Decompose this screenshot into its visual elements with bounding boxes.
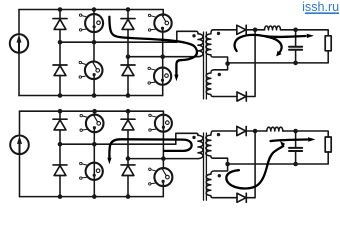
wire leg3 bbox=[127, 10, 129, 96]
current path arrow output loop bottom ckt bbox=[226, 146, 283, 188]
wire left side bottom ckt bbox=[19, 111, 21, 196]
diode VD8 bbox=[53, 165, 67, 176]
diode VD1 bbox=[53, 19, 67, 30]
polarity dot primary T1 bbox=[192, 34, 195, 37]
transformer T1 lower secondary bbox=[206, 64, 227, 97]
transformer T1 core bbox=[204, 32, 207, 99]
wire L1 to load corner bbox=[281, 30, 329, 36]
capacitor C1 bbox=[289, 30, 302, 63]
diode VD5 bbox=[237, 25, 246, 34]
wire load bottom to return rail bbox=[228, 51, 329, 63]
node capacitor bottom bbox=[293, 61, 298, 66]
diode VD12 bbox=[237, 193, 246, 202]
node top rail leg1 bbox=[58, 7, 63, 12]
switch tube V7 (on) bbox=[149, 114, 172, 131]
polarity dot upper secondary T2 bbox=[217, 133, 220, 136]
current source I1 bbox=[10, 34, 28, 52]
switch tube V2 (off) bbox=[79, 61, 102, 79]
diode VD3 bbox=[121, 19, 135, 30]
resistor R1 load bbox=[325, 36, 331, 51]
node midrail-right leg4 bbox=[160, 54, 165, 59]
current path arrow to load bottom ckt bbox=[271, 140, 308, 142]
wire VD12 riser to output junction b bbox=[246, 131, 255, 198]
current source I2 bbox=[10, 136, 29, 155]
node capacitor bottom b bbox=[293, 162, 298, 167]
wire VD11 to inductor L2 bbox=[246, 130, 267, 132]
switch tube V4 (on) bbox=[148, 67, 171, 85]
current path arrow capacitor top ckt bbox=[267, 37, 282, 54]
wire leg1 b bbox=[59, 111, 61, 196]
node bottom rail leg2 bbox=[92, 93, 97, 98]
wire leg4 bbox=[162, 10, 165, 96]
node bottom rail leg1 b bbox=[58, 194, 63, 199]
transformer T2 primary winding bbox=[198, 135, 203, 158]
wire bottom rail bottom ckt bbox=[20, 196, 164, 198]
inductor L1 bbox=[265, 26, 281, 30]
diode VD11 bbox=[237, 126, 246, 135]
wire leg2 bbox=[93, 10, 95, 96]
node midrail leg1 b bbox=[58, 142, 63, 147]
wire lower secondary to diode VD6 bbox=[213, 96, 237, 98]
wire leg4 b bbox=[162, 111, 164, 196]
node top rail leg3 bbox=[126, 7, 131, 12]
switch tube V3 (off) bbox=[148, 14, 171, 32]
diode VD6 bbox=[237, 92, 246, 101]
wire secondary top to diode VD11 bbox=[213, 130, 237, 132]
issh.ru link bbox=[302, 0, 339, 14]
node top rail leg3 b bbox=[126, 109, 131, 114]
wire secondary top to diode VD5 bbox=[213, 29, 237, 31]
wire left side top ckt bbox=[18, 10, 20, 96]
wire leg3 b bbox=[127, 111, 129, 196]
node bottom rail leg3 b bbox=[126, 194, 131, 199]
node midrail leg1 bbox=[58, 40, 63, 45]
current path arrow bridge bottom ckt bbox=[109, 139, 191, 158]
node bottom rail leg3 bbox=[126, 93, 131, 98]
polarity dot upper secondary T1 bbox=[217, 32, 220, 35]
node bottom rail leg1 bbox=[58, 93, 63, 98]
switch tube V1 (on) bbox=[79, 14, 103, 32]
node top rail leg2 b bbox=[92, 109, 97, 114]
node midrail-right leg3 bbox=[126, 54, 131, 59]
wire L2 to load corner b bbox=[283, 131, 328, 137]
node midrail-right leg3 b bbox=[126, 156, 131, 161]
switch tube V5 (off) bbox=[80, 114, 103, 132]
wire bottom rail top ckt bbox=[19, 95, 163, 97]
transformer T2 lower secondary bbox=[206, 164, 227, 198]
node capacitor top bbox=[293, 28, 298, 33]
node top rail leg2 bbox=[92, 7, 97, 12]
switch tube V6 (on) bbox=[80, 162, 103, 180]
node center tap T2 bbox=[225, 162, 230, 167]
wire leg1 bbox=[59, 10, 61, 96]
inductor L2 bbox=[267, 127, 283, 131]
diode VD7 bbox=[53, 119, 67, 130]
diode VD2 bbox=[53, 65, 67, 76]
wire lower secondary to diode VD12 bbox=[213, 197, 237, 199]
wire midrail-left to primary top b bbox=[60, 133, 198, 144]
wire top rail bottom ckt bbox=[20, 110, 164, 112]
capacitor C2 bbox=[289, 131, 302, 164]
node midrail-left leg2 bbox=[92, 40, 97, 45]
node rectifier output junction b bbox=[253, 129, 258, 134]
transformer T1 primary winding bbox=[198, 34, 203, 57]
polarity dot primary T2 bbox=[192, 136, 195, 139]
transformer T1 upper secondary bbox=[206, 30, 228, 64]
wire top rail top ckt bbox=[19, 9, 163, 11]
node top rail leg1 b bbox=[58, 109, 63, 114]
transformer T2 core bbox=[204, 133, 207, 200]
diode VD10 bbox=[121, 165, 135, 176]
wire midrail-right to primary bottom bbox=[128, 56, 198, 58]
node midrail-right leg4 b bbox=[161, 156, 166, 161]
current path arrow bridge top ckt bbox=[109, 17, 197, 76]
wire leg2 b bbox=[93, 111, 95, 196]
transformer T2 upper secondary bbox=[206, 131, 228, 164]
polarity dot lower secondary T2 bbox=[218, 174, 221, 177]
wire load bottom to return rail b bbox=[228, 152, 329, 164]
node rectifier output junction bbox=[253, 28, 258, 33]
svg-text:issh.ru: issh.ru bbox=[302, 0, 339, 14]
wire midrail-left to primary top bbox=[60, 31, 198, 42]
wire VD6 riser to output junction bbox=[246, 30, 255, 97]
diode VD9 bbox=[121, 119, 135, 130]
wire VD5 to inductor L1 bbox=[246, 29, 264, 31]
wire midrail-right to primary bottom b bbox=[128, 158, 198, 160]
node bottom rail leg2 b bbox=[92, 194, 97, 199]
resistor R2 load bbox=[325, 137, 331, 152]
polarity dot lower secondary T1 bbox=[218, 73, 221, 76]
node midrail-left leg2 b bbox=[92, 142, 97, 147]
diode VD4 bbox=[121, 65, 135, 76]
node center tap T1 bbox=[225, 61, 230, 66]
switch tube V8 (off) bbox=[149, 168, 173, 186]
node capacitor top b bbox=[293, 129, 298, 134]
current path arrow output top ckt bbox=[235, 35, 306, 51]
